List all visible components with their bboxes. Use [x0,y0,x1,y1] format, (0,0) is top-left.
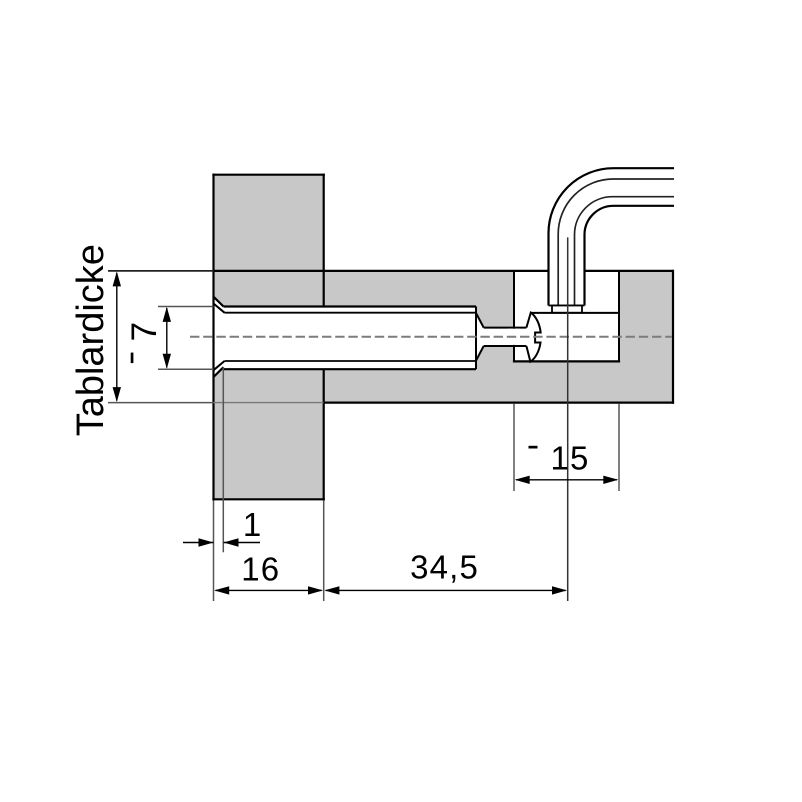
vertical panel bottom edge [212,498,324,500]
drill hole 7mm (white bore) [214,307,477,370]
bore top line [224,305,477,307]
superscript minus of -15 [529,446,538,449]
dowel body end face [475,307,477,370]
arrowhead down [113,387,121,402]
horizontal panel top edge [214,270,674,272]
hex key outer right/bottom line [585,206,675,306]
arrowhead pointing left at countersink [224,538,239,546]
countersink mouth bottom (white triangle) [214,367,224,377]
dowel head chamfer bottom [214,361,225,370]
countersink chamfer bottom [214,367,224,377]
vertical panel left edge / dowel face [212,174,214,501]
extension line: cavity right (-15) [618,404,620,491]
screw cone taper bottom [476,346,484,361]
neck white over cavity wall [508,329,520,345]
screw neck bottom line [484,345,527,347]
dimension -7 arrow line [166,308,168,368]
vertical panel top edge [212,174,324,176]
countersink chamfer top [214,297,224,307]
arrowhead right [552,586,567,594]
horizontal panel right edge [672,270,674,404]
hex key outer left/top line [549,168,675,305]
vertical panel right edge lower [323,369,325,500]
extension line: key axis down to 34,5 [567,237,569,601]
svg-text:1: 1 [243,506,261,543]
cavity right wall [618,271,620,362]
svg-text:7: 7 [125,322,164,341]
extension line: cavity left (-15) [513,404,515,491]
extension line: bore top (-7) [158,306,214,308]
arrowhead right [603,476,618,484]
arrowhead up [163,307,171,322]
extension line: panel face (16/1) [213,500,215,601]
horizontal panel bottom edge (visible) [324,402,674,404]
screw neck top line [484,327,527,329]
svg-text:34,5: 34,5 [410,549,479,586]
dimension -15 arrow line [516,479,617,481]
dimension 1: left tail [183,542,214,544]
arrowhead up [113,271,121,286]
svg-text:15: 15 [550,440,589,477]
hex key tip [552,306,582,313]
dimension Tablardicke arrow line [116,273,118,401]
screw head (white fill, dome with recess notch) [526,313,540,362]
arrowhead left [515,476,530,484]
svg-text:Tablardicke: Tablardicke [70,244,112,436]
dimension 34,5 arrow line [326,589,566,591]
head top line to cavity wall [531,312,619,314]
dimension 1: right tail [224,542,261,544]
arrowhead left [214,586,229,594]
superscript minus of -7 [131,353,134,364]
bore bottom line [224,368,477,370]
svg-text:16: 16 [241,550,280,587]
horizontal panel bottom edge (hidden part thin) [214,402,324,404]
screw head outline [526,313,540,362]
horizontal panel (shelf, cross-section) [214,271,674,403]
cavity bottom line [513,360,620,362]
arrowhead pointing right at panel face [199,538,214,546]
extension line: countersink depth (1) [222,367,224,552]
countersink mouth top (white triangle) [214,297,224,307]
cavity: 15mm cross bore (white) [514,271,619,362]
vertical panel (16mm board, cross-section) [214,175,324,500]
vertical panel right edge upper [323,174,325,307]
extension line: panel bottom (Tablardicke) [108,402,214,404]
arrowhead right [308,586,323,594]
hex key face line 2 [558,179,674,306]
hex key white fill [549,168,675,305]
screw cone taper top [476,313,484,328]
extension line: bore bottom (-7) [158,368,214,370]
arrowhead left [324,586,339,594]
extension line: panel top (Tablardicke) [108,270,214,272]
dowel head chamfer top [214,304,225,313]
extension line: panel back face (16/34,5) [323,500,325,601]
dimension 16 arrow line [216,589,322,591]
arrowhead down [163,354,171,369]
hex key shoulder [549,305,585,307]
pilot hole and cone clearance (white) [476,313,526,361]
dowel body top line [225,312,477,314]
cavity left wall [513,271,515,362]
hex key face line 3 [575,197,675,306]
dowel body bottom line [225,360,477,362]
centre line (dashed) [190,336,672,338]
